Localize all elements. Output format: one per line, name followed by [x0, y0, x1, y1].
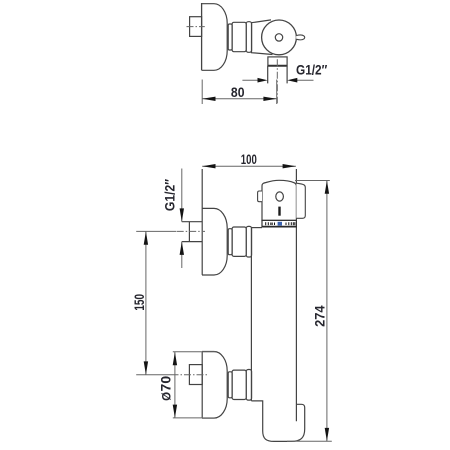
- G1/2 pointer arrows (top view): [242, 79, 313, 81]
- dim 274: dimension line: [326, 181, 328, 442]
- bottom outlet block: [251, 401, 304, 442]
- svg-text:G1/2″: G1/2″: [161, 179, 177, 211]
- hex nut (top view): [190, 17, 202, 37]
- svg-text:G1/2″: G1/2″: [296, 62, 328, 78]
- right extension / body right edge: [295, 169, 297, 421]
- connection assembly (dome + rings), top view: [202, 4, 252, 71]
- outlet pipe (top view): [268, 66, 287, 84]
- nut center line (dash-dot): [187, 26, 205, 28]
- lower hex nut: [189, 365, 202, 385]
- knob hub small circle: [275, 34, 282, 41]
- scale center mark (blue): [278, 222, 282, 226]
- body column left edge: [250, 228, 252, 401]
- lower wall chord line: [201, 352, 203, 418]
- dim 274: extension lines: [295, 180, 330, 182]
- knob circle (top view): [262, 20, 297, 55]
- svg-text:100: 100: [241, 151, 257, 167]
- lever pointer tab: [296, 35, 305, 40]
- G1/2 arrows (front view): [181, 169, 183, 222]
- knob (front view): [262, 180, 296, 220]
- knob left tab: [258, 191, 262, 202]
- dim 80: dimension line: [202, 98, 277, 100]
- lower connection (dome + rings), front view: [202, 352, 252, 419]
- knob oval opening: [276, 192, 284, 201]
- scale tick marks: [266, 222, 295, 225]
- dim 80: extension lines: [201, 80, 203, 105]
- svg-text:150: 150: [131, 294, 147, 311]
- upper hex nut: [182, 222, 202, 242]
- left extension / wall chord line (upper): [201, 169, 203, 275]
- head housing (top view): [252, 20, 273, 55]
- outlet collar (top view): [268, 57, 287, 66]
- knob indicator bar: [278, 207, 280, 216]
- dim 150: extension lines: [136, 230, 176, 232]
- wall line (top view): [201, 3, 203, 71]
- svg-text:274: 274: [311, 305, 327, 327]
- dim 150: dimension line: [145, 231, 147, 374]
- dim 100: dimension line: [202, 165, 296, 167]
- body top step line: [251, 227, 262, 229]
- lower nut center line (dash-dot): [172, 374, 209, 376]
- upper connection (dome + rings), front view: [202, 208, 252, 275]
- svg-text:80: 80: [231, 84, 245, 100]
- svg-text:Ø70: Ø70: [158, 376, 174, 401]
- dim Ø70: extension lines: [173, 351, 216, 353]
- collar thick bottom edge: [268, 65, 287, 67]
- pipe center line (dash-dot): [276, 59, 278, 103]
- knob right side piece: [296, 183, 305, 218]
- upper nut center line (dash-dot): [177, 230, 205, 232]
- temperature scale band: [262, 220, 296, 226]
- dim Ø70: dimension line: [174, 352, 176, 418]
